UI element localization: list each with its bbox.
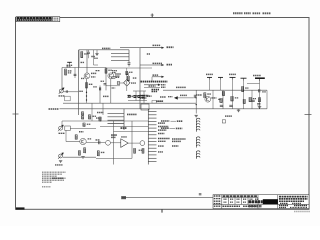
bus ladder label (127, 113, 137, 115)
wire rail y108.8 (ground rail) (60, 108, 268, 110)
power rail start text row2 (152, 91, 158, 93)
junction dot n4 (196, 104, 197, 105)
bottom-left corner mark (16, 207, 25, 209)
J2 label (59, 132, 66, 134)
out label row2b (176, 127, 183, 129)
title block dark row left (249, 200, 263, 203)
capacitor C16 (polarized) (128, 95, 131, 97)
wire J3 to stage (63, 156, 96, 158)
wire comb x136 (135, 91, 137, 101)
ground G9 (59, 161, 62, 163)
Q5 value (111, 136, 116, 138)
resistor R9 (99, 117, 101, 121)
resistor R6 (81, 112, 83, 115)
wire vert x75 (74, 68, 76, 79)
wire branch x252 (251, 90, 253, 109)
wire top link y47.7 (120, 47, 140, 49)
label row c (135, 95, 140, 97)
wire A3 drop (151, 77, 153, 82)
wire out row1 (171, 120, 177, 122)
A4 long dark label (141, 81, 168, 83)
R24 label (101, 151, 105, 153)
box corner label (79, 90, 83, 92)
wire J1 to stage (64, 91, 79, 93)
resistor R7 (81, 116, 83, 119)
label row d (196, 94, 202, 96)
resistor R22 (84, 148, 86, 153)
Q2 designator (115, 73, 121, 75)
revision strip line (122, 197, 213, 199)
wire rail y68 (106, 67, 152, 69)
power tap T1 (67, 62, 72, 64)
R14 label (245, 87, 248, 89)
wire ch2 bus x132 (131, 121, 133, 158)
R11 label (218, 98, 221, 100)
J1 designator box (65, 96, 71, 101)
capacitor C13 (polarized) (252, 100, 255, 101)
wire comb x140 (139, 91, 141, 101)
annotation m5 (81, 77, 84, 79)
ground G7 (237, 110, 240, 112)
wire G7 stub (238, 109, 240, 110)
R28 label (116, 76, 120, 78)
transistor Q5 (open circle) (106, 140, 111, 145)
ground G10 (258, 107, 261, 109)
R2 value (68, 70, 72, 72)
resistor R17 (258, 98, 260, 102)
R27 label (129, 71, 133, 73)
wire branch x220.5 upper (220, 80, 222, 90)
annotation m3 (101, 80, 105, 82)
mid annotation 1 (172, 138, 186, 140)
ladder title text 2 (140, 97, 147, 99)
annotation m1 (81, 61, 85, 63)
Q4 designator label (79, 131, 84, 133)
transistor Q2 (108, 73, 114, 79)
capacitor C1 (87, 52, 90, 53)
power rail start text (152, 89, 160, 91)
out label row1b (177, 120, 183, 122)
wire drop x79 to box (78, 50, 80, 67)
stack area small box (222, 120, 225, 123)
cap bank label (147, 95, 152, 97)
R4 label (108, 69, 112, 71)
rail junction box (152, 100, 157, 103)
wire lower stub y85.8 (106, 85, 120, 87)
junction box label (158, 100, 164, 102)
J1 label (59, 95, 66, 97)
page border frame (16, 18, 310, 210)
left text rows a (112, 70, 117, 72)
rung label 7 (158, 145, 164, 147)
top border tick (151, 14, 153, 18)
rung label 1 (158, 122, 165, 124)
wire ch2 rail y158.4 (96, 157, 132, 159)
ground G1 (95, 54, 98, 56)
ch2 tick label (96, 117, 102, 119)
annotation m2 (96, 70, 101, 72)
wire R5 stub (127, 73, 129, 77)
title block text (214, 196, 308, 208)
capacitor C15 (dark) (99, 87, 100, 90)
wire rail y103.2 (63, 102, 196, 104)
doc number text 3 (253, 12, 261, 14)
resistor R5 (127, 76, 129, 81)
A1 dest label (167, 46, 174, 48)
wire branch x259.5 (259, 81, 261, 109)
doc number text 2 (244, 12, 251, 14)
A4 sub label (149, 85, 156, 87)
R3 label (89, 83, 93, 85)
stack area label 1 (225, 115, 232, 117)
wire vert x103 (102, 103, 104, 115)
wire Q4 base (66, 141, 80, 143)
wire bias rail y67.5 (62, 67, 106, 69)
out label row1 (161, 120, 170, 122)
Q4 side label (88, 138, 92, 140)
resistor R4 (105, 69, 107, 74)
wire ch2 rail y131.6 (114, 131, 149, 133)
resistor R24 (97, 151, 99, 156)
wire Q2 emitter (110, 79, 112, 103)
wire G1 stub (96, 50, 98, 54)
wire C1 top stub (88, 50, 90, 52)
bridge rectifier CR1 (diamond) (124, 80, 130, 87)
out label row2 (161, 127, 169, 129)
resistor R26 (134, 148, 136, 153)
C12 label (262, 91, 266, 93)
wire ch2 tick x100 (99, 119, 101, 121)
title block grid (213, 195, 309, 209)
wire box left x62 (61, 68, 63, 91)
resistor R12 (222, 91, 224, 95)
A2 dest label (167, 64, 173, 66)
A1 overline label (153, 44, 161, 46)
output line A3 (152, 76, 164, 78)
resistor R15 (249, 97, 251, 101)
PT1 label (206, 73, 213, 75)
capacitor C4 w/ junction (128, 63, 131, 67)
T1 label row2 (67, 66, 72, 68)
resistor R18 (243, 99, 245, 103)
B1 end label (161, 84, 166, 86)
capacitor C17 (polarized) (134, 96, 137, 98)
input jack J1 (59, 88, 64, 94)
coupling cap C11 (99, 141, 100, 144)
wire collector x87 (86, 50, 88, 73)
resistor R10 (204, 93, 206, 98)
R13 label (235, 97, 238, 99)
ground rail label (49, 108, 60, 110)
junction dot n1 (86, 92, 87, 93)
resistor R3 (86, 83, 88, 89)
R15 label (253, 98, 256, 100)
PT5 label (253, 75, 261, 77)
wire C1 bottom stub (88, 54, 90, 59)
A3 overline label (153, 74, 159, 76)
annotation m4 (93, 86, 97, 88)
label row a (103, 95, 109, 97)
junction dot n5 (112, 87, 113, 88)
rung label 2 (158, 126, 169, 128)
wire ch2 rail y128.4 left (70, 127, 96, 129)
D1 label (180, 94, 187, 96)
rung label 8 (158, 151, 163, 153)
Q3 designator (211, 97, 216, 99)
output line A2 (140, 64, 164, 66)
revision strip end label (121, 196, 126, 199)
resistor R13 (231, 96, 233, 101)
output line A1 (140, 47, 164, 49)
ladder feed box (141, 104, 149, 110)
R8 label (93, 115, 97, 117)
transistor Q1 (84, 73, 90, 79)
R10 label (207, 93, 211, 95)
diode D1 (left arrow) (175, 97, 178, 100)
wire ch2 rung r1 (111, 142, 121, 144)
power tap PT3 (230, 77, 236, 79)
wire vert x93.5 (93, 50, 95, 65)
C11 label (96, 139, 101, 141)
wire branch x209.5 upper (209, 80, 211, 90)
capacitor C19 (polarized) (142, 96, 145, 98)
wire centre bus x140 (139, 48, 141, 109)
wire ch2 rail y126.6 (100, 126, 148, 128)
rung label 5 (158, 138, 170, 140)
wire J2 vert (61, 121, 63, 126)
label row b (128, 95, 134, 97)
wire vert x144 (143, 96, 145, 104)
power tap PT2 (218, 77, 223, 79)
wire vert x92 (91, 103, 93, 121)
wire ladder top link (155, 102, 164, 104)
wire comb x144 (143, 91, 145, 101)
power rail label (176, 86, 186, 88)
wire vert x196 (195, 90, 197, 113)
U2 label (121, 136, 127, 138)
capacitor C5 (194, 95, 195, 98)
doc number text 4 (263, 12, 272, 14)
capacitor C10 (polarized) (257, 104, 260, 105)
wire vert x78.5 (78, 50, 80, 115)
feedback ladder (top stage) (111, 50, 129, 62)
connector P2 pin stack (196, 137, 200, 148)
ground G6 (195, 115, 198, 117)
power left text b (168, 96, 173, 98)
capacitor C2 (74, 74, 77, 75)
ladder title text (140, 95, 149, 97)
multi-pin connector ladder (centre) (148, 109, 156, 165)
wire branch x213 (212, 90, 214, 109)
capacitor C18 (polarized) (138, 96, 141, 98)
rung label 6 (158, 140, 166, 142)
wire vert x106 (105, 67, 107, 90)
B2 end label (161, 86, 166, 88)
y126.6 label (121, 127, 128, 129)
wire Q4 out (86, 142, 105, 144)
wire ch2 left vert (65, 130, 67, 141)
G1 adjacent label (94, 57, 98, 59)
resistor R25 (142, 148, 144, 153)
notes text block (42, 172, 66, 187)
transistor Q3 (205, 96, 211, 102)
R2 value row2 (68, 72, 71, 74)
connector P1 pin stack (196, 118, 200, 132)
Q5 designator (111, 134, 117, 136)
branch line B1 (144, 84, 160, 86)
wire n5 stub (111, 87, 116, 89)
capacitor C14 (104, 84, 107, 85)
Q1 designator (91, 72, 96, 74)
wire branch x267 (266, 90, 268, 109)
R20 label (87, 123, 91, 125)
branch line B2 (144, 86, 160, 88)
resistor R11 (220, 98, 222, 102)
resistor R21 (75, 135, 77, 139)
left border tick (13, 113, 19, 115)
resistor R23 (78, 151, 80, 156)
inline component X1 (117, 82, 120, 85)
power tap PT4 (241, 78, 247, 80)
rung label 4 (158, 133, 165, 135)
resistor R1 (81, 52, 83, 58)
mid annotation 2 (172, 140, 181, 142)
wire U2 out (128, 142, 140, 144)
T1 label (67, 64, 73, 66)
input jack J2 (58, 125, 63, 131)
power left text a (160, 96, 166, 98)
J3 label (55, 164, 63, 166)
resistor R28 (horizontal) (112, 76, 115, 78)
wire out row2 (170, 127, 176, 129)
CR1 label (131, 82, 136, 84)
capacitor C3 (66, 90, 67, 92)
capacitor C12 (258, 89, 260, 92)
top rail net label (102, 47, 111, 49)
wire comb bottom y100.5 (128, 100, 147, 102)
wire comb top y91 (133, 90, 146, 92)
capacitor C8 (polarized) (220, 105, 223, 106)
resistor R14 (242, 87, 244, 92)
wire bridge y83.6 (247, 83, 260, 85)
ground G8 (81, 156, 84, 158)
power tap PT5 (wide) (255, 78, 265, 81)
junction dot n3 (196, 97, 197, 98)
J2 side box (65, 126, 71, 130)
PT3 label (229, 73, 236, 75)
R1 value label (84, 53, 88, 55)
wire stub y65 (94, 64, 99, 66)
C1 label (91, 56, 95, 58)
wire branch x232.5 (232, 80, 234, 109)
wire top rail y49.8 (79, 49, 111, 51)
mid label row (97, 112, 104, 114)
capacitor C9 (polarized) (229, 105, 232, 106)
small mark above block (199, 193, 202, 195)
doc number text 1 (233, 12, 243, 14)
wire CR1 down (126, 86, 128, 91)
rung label 3 (158, 129, 167, 131)
transistor Q4 (80, 138, 86, 144)
resistor R2 (65, 69, 67, 75)
left text rows b (112, 72, 116, 74)
resistor R20 (83, 123, 85, 126)
op-amp U2 triangle (121, 139, 128, 148)
wire branch x223 (222, 90, 224, 109)
wire power rail y90.2 (163, 89, 267, 91)
wire CR1 top feed (126, 68, 128, 80)
ladder top link label (156, 100, 163, 102)
junction dot n2 (86, 95, 87, 96)
R25 label (139, 149, 143, 151)
A2 overline label (153, 62, 163, 64)
title block lower smudge (249, 205, 263, 207)
right border tick (305, 114, 312, 116)
transistor Q6 (open circle) (140, 141, 145, 146)
wire D1 to C5 (178, 97, 194, 99)
title block logo dark panel (263, 199, 278, 204)
wire branch x243.5 (243, 81, 245, 109)
Q2 value label (115, 75, 120, 77)
junction dot n3b (86, 99, 87, 100)
bottom border tick (161, 209, 163, 212)
input jack J3 (58, 153, 63, 159)
sheet annotation below title block (294, 211, 310, 213)
resistor R8 (88, 115, 90, 119)
wire vert x100 (99, 86, 101, 104)
bus tag text (147, 53, 150, 55)
bus ladder (mid-left) (108, 109, 125, 130)
mid annotation 3 (172, 145, 179, 147)
resistor R27 (126, 71, 128, 74)
wire Q1 emitter (86, 79, 88, 103)
R5 label (133, 77, 137, 79)
title strip label box (top-left) (16, 17, 60, 22)
connector P3 pin stack (196, 151, 200, 159)
Q1 type label (91, 76, 96, 78)
wire to CR1 left (117, 82, 124, 84)
wire ch2 vert x113.5 (113, 121, 115, 165)
power tap PT1 (207, 77, 212, 79)
wire ch2 rail y121 (62, 120, 148, 122)
